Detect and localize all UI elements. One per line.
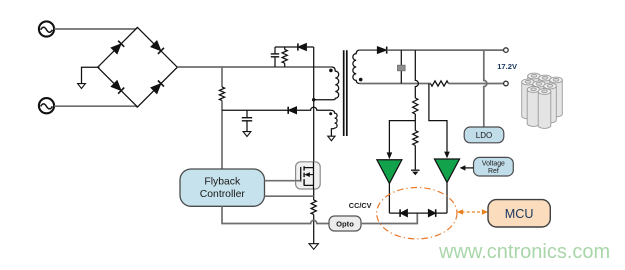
AC source V1 xyxy=(39,21,54,36)
wire shunt to CC amp xyxy=(429,84,447,152)
wire MOSFET source to sense xyxy=(313,189,315,200)
AC source V2 xyxy=(39,98,54,113)
svg-text:Controller: Controller xyxy=(200,189,246,200)
wire bridge left to ground xyxy=(82,67,100,83)
wire sense feedback xyxy=(265,195,314,197)
ground (sense) xyxy=(309,244,318,250)
wire Opto to diode node xyxy=(361,213,417,223)
transformer T1 aux winding xyxy=(329,110,337,136)
capacitor C3 (output) xyxy=(398,50,406,83)
wire V1 to bridge top xyxy=(54,28,137,29)
wire rail to LDO (hop over bottom rail) xyxy=(484,50,487,127)
wire divider mid xyxy=(414,114,416,131)
Opto coupler xyxy=(329,216,361,231)
terminal - xyxy=(504,81,509,86)
dashed highlight ellipse xyxy=(377,188,457,239)
diode D8 (CV OR) xyxy=(400,209,407,217)
wire drain (snubber to MOSFET) xyxy=(313,47,315,162)
orange double arrow to MCU xyxy=(457,209,488,215)
op-amp U2 (CV, green) xyxy=(377,160,402,184)
bridge diode D1 xyxy=(111,41,124,54)
svg-text:17.2V: 17.2V xyxy=(497,62,518,71)
wire rail to R1 xyxy=(221,67,223,87)
MCU block xyxy=(488,200,550,227)
wire VIN+ rail xyxy=(177,66,331,68)
bridge diode D3 xyxy=(111,81,124,94)
wire Flyback to Opto (with hop) xyxy=(222,206,329,223)
wire Voltage Ref to U3 with arrowhead xyxy=(460,165,474,170)
diode D6 (VCC rectifier) xyxy=(288,107,296,114)
wire snubber top xyxy=(275,46,298,48)
ground (C2) xyxy=(243,132,251,137)
op-amp U3 (CC, green) xyxy=(435,159,460,183)
ground (divider, small) xyxy=(411,170,420,175)
wire OR-diode rail xyxy=(389,212,447,214)
wire bottom rail to terminal xyxy=(449,83,504,85)
ground (aux winding) xyxy=(328,136,335,141)
node drain/primary junction xyxy=(312,98,315,101)
transformer T1 primary winding xyxy=(314,67,339,100)
svg-text:Opto: Opto xyxy=(336,220,354,229)
wire D5 to drain xyxy=(307,46,314,48)
svg-text:CC/CV: CC/CV xyxy=(349,201,372,210)
wire VCC rail left xyxy=(222,109,288,111)
wire bridge diamond xyxy=(98,27,178,107)
diode D7 (output rectifier) xyxy=(377,47,386,54)
diode D9 (CC OR) xyxy=(428,209,435,217)
capacitor C2 (VCC) xyxy=(242,110,252,131)
svg-text:MCU: MCU xyxy=(505,207,534,221)
terminal + xyxy=(504,48,509,53)
transformer T1 core xyxy=(344,50,347,136)
wire R5 to small ground xyxy=(414,146,416,170)
wire D6 to aux winding with hop xyxy=(297,107,331,110)
svg-text:LDO: LDO xyxy=(476,131,492,140)
wire U2 output leg xyxy=(388,183,390,213)
capacitor C1 (snubber) xyxy=(271,47,279,67)
resistor R1 xyxy=(219,87,224,101)
wire R3 to ground xyxy=(313,215,315,244)
wire secondary top rail xyxy=(360,49,378,51)
resistor R5 (divider bottom) xyxy=(413,131,418,146)
svg-text:Ref: Ref xyxy=(488,168,499,175)
wire secondary bottom rail xyxy=(360,83,431,85)
wire divider drop (hop over rail) xyxy=(415,50,418,98)
bridge diode D4 xyxy=(151,81,164,94)
resistor R4 (divider top) xyxy=(413,98,418,114)
svg-text:Flyback: Flyback xyxy=(204,176,241,187)
arrowhead into CC amp xyxy=(444,152,450,159)
transformer T1 secondary winding xyxy=(353,50,363,83)
wire gate xyxy=(265,180,301,182)
wire divider tap to CV amp xyxy=(389,121,415,153)
ground (input) xyxy=(78,84,86,89)
Flyback Controller U1 xyxy=(180,169,265,206)
svg-text:Voltage: Voltage xyxy=(482,160,505,167)
resistor R2 (snubber) xyxy=(282,47,287,67)
arrowhead into CV amp xyxy=(387,152,393,159)
svg-text:www.cntronics.com: www.cntronics.com xyxy=(438,241,610,263)
resistor R3 (current sense) xyxy=(311,200,316,215)
wire U3 output leg xyxy=(446,183,448,214)
diode D5 (snubber clamp) xyxy=(298,43,307,50)
wire V2 to bridge bottom xyxy=(54,106,137,107)
LDO block xyxy=(464,127,504,143)
wire top rail to terminal xyxy=(387,49,504,51)
transistor Q1 (MOSFET) xyxy=(296,162,321,189)
wire R1 to VCC rail and Flyback Controller xyxy=(221,101,223,170)
bridge diode D2 xyxy=(151,41,164,54)
Voltage Ref block xyxy=(474,157,514,176)
resistor R6 (shunt) xyxy=(431,81,449,86)
battery pack xyxy=(522,73,563,128)
